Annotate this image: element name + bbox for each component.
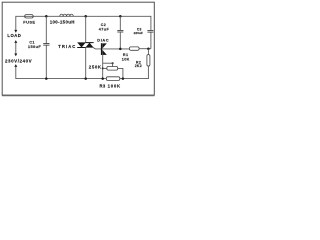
capacitor C2 lower wire	[119, 32, 121, 49]
node: wiper tee	[112, 62, 114, 64]
capacitor C1 plates	[43, 43, 49, 45]
pot wiper drop	[112, 63, 114, 66]
resistor R2 body vertical	[147, 55, 150, 66]
inductor L1 coil	[60, 14, 73, 16]
wire LOAD to source	[15, 43, 17, 54]
node: R3 right junction	[122, 77, 125, 80]
svg-text:R3: R3	[100, 84, 106, 89]
capacitor C2 branch upper wire	[119, 16, 121, 30]
bottom rail wire	[16, 78, 149, 80]
fuse F1	[25, 15, 34, 18]
terminal arrow down (above 230V)	[14, 54, 17, 57]
node: L-triac junction	[84, 15, 87, 18]
R2 lower wire to bottom rail	[147, 66, 149, 79]
diac D1 symbol	[101, 43, 102, 55]
border frame	[2, 2, 154, 95]
potentiometer P1 250K body	[107, 67, 118, 71]
node D: gate-C2-R1 junction	[119, 48, 122, 51]
wiper tee wire	[103, 62, 113, 64]
terminal arrow up (below 230V)	[14, 64, 17, 67]
svg-text:150uF: 150uF	[28, 44, 41, 49]
svg-text:LOAD: LOAD	[7, 33, 21, 38]
capacitor C2 plates	[117, 29, 123, 31]
top rail wire	[16, 15, 151, 17]
node E: R1-C3-R2 junction	[147, 47, 150, 50]
capacitor C1 branch wire upper	[45, 16, 47, 43]
svg-text:TRIAC: TRIAC	[58, 44, 76, 49]
node: fuse-C1 junction	[45, 15, 48, 18]
triac T1 symbol	[77, 42, 86, 47]
svg-text:C2: C2	[101, 23, 106, 27]
wire left drop from top rail	[15, 16, 17, 30]
terminal arrow down (above LOAD)	[14, 30, 17, 33]
svg-text:DIAC: DIAC	[97, 37, 109, 42]
R1 right wire	[139, 48, 151, 50]
svg-text:100-150uH: 100-150uH	[50, 19, 75, 24]
node: C2 top junction	[119, 15, 122, 18]
gate wire diac to node D	[101, 48, 129, 50]
triac branch wire upper	[85, 16, 87, 42]
right branch wire below C3	[150, 32, 152, 48]
node: C1 bottom junction	[45, 77, 48, 80]
svg-text:220uF: 220uF	[134, 31, 143, 35]
svg-text:10K: 10K	[122, 57, 130, 61]
node: pot left junction	[102, 67, 104, 69]
svg-text:100K: 100K	[108, 84, 121, 89]
resistor R3 body inline on rail	[106, 77, 120, 81]
svg-text:230V/240V: 230V/240V	[5, 58, 32, 63]
node: diac branch bottom junction	[101, 77, 104, 80]
svg-text:250K: 250K	[89, 65, 102, 70]
svg-text:2K2: 2K2	[135, 64, 142, 68]
resistor R1 body	[129, 47, 139, 50]
capacitor C1 branch wire lower	[45, 45, 47, 78]
diac lower vertical wire	[102, 55, 104, 79]
capacitor C3 plates	[147, 29, 153, 31]
wire source to bottom rail	[15, 67, 17, 79]
right branch upper wire (top rail corner down)	[150, 16, 152, 30]
svg-text:FUSE: FUSE	[23, 19, 35, 24]
triac branch wire lower	[85, 47, 87, 78]
terminal arrow up (below LOAD)	[14, 40, 17, 43]
triac gate wire	[93, 47, 101, 49]
node: triac bottom junction	[84, 77, 87, 80]
pot right lead with corner to rail	[118, 68, 123, 78]
pot left lead	[103, 67, 107, 69]
svg-text:47uF: 47uF	[99, 28, 110, 32]
R2 upper wire	[147, 49, 149, 55]
